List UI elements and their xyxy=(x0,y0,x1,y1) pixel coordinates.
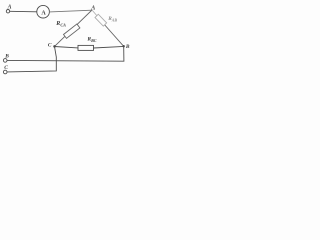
wire node B down and left to terminal B xyxy=(7,46,124,61)
wire node C down xyxy=(7,47,56,72)
resistor R_BC box xyxy=(78,45,94,50)
svg-text:C: C xyxy=(4,65,8,71)
wire node A to node B (right side of delta, upper faint part) xyxy=(92,10,104,24)
resistor R_CA box xyxy=(63,24,79,38)
wire resistor RAB to node B xyxy=(103,23,124,46)
junction node C xyxy=(53,45,56,48)
svg-text:RCA: RCA xyxy=(55,21,66,28)
svg-text:RBC: RBC xyxy=(86,37,96,43)
svg-text:B: B xyxy=(125,44,130,50)
junction node B xyxy=(123,45,125,47)
svg-text:A: A xyxy=(90,6,95,12)
terminal C xyxy=(3,70,7,74)
svg-text:A: A xyxy=(7,5,12,11)
wire terminal A to ammeter xyxy=(10,10,37,13)
terminal B xyxy=(3,59,7,63)
terminal A xyxy=(6,10,9,13)
wire node C to resistor RBC xyxy=(55,47,79,48)
wire resistor RBC to node B xyxy=(94,46,124,48)
wire ammeter to node A xyxy=(49,10,92,12)
ammeter U1 xyxy=(37,5,50,18)
svg-text:B: B xyxy=(4,53,9,59)
wire node A to node C (left side of delta) xyxy=(55,10,93,46)
svg-text:A: A xyxy=(41,10,46,16)
resistor R_AB box xyxy=(95,14,107,26)
svg-text:C: C xyxy=(48,43,52,49)
